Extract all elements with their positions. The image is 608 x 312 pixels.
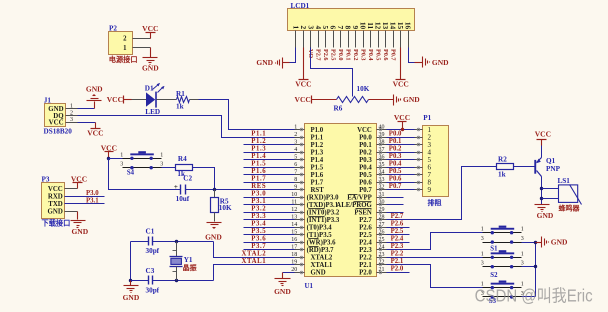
svg-text:P2.3: P2.3 bbox=[391, 243, 404, 250]
svg-text:J1: J1 bbox=[44, 96, 52, 104]
U1 pin 19 (XTAL1) bbox=[291, 260, 333, 270]
wire S2 to ground rail bbox=[522, 266, 536, 268]
svg-text:P1.5: P1.5 bbox=[311, 165, 324, 172]
power port VCC (U1 pin40) bbox=[394, 113, 410, 129]
svg-text:GND: GND bbox=[537, 211, 554, 220]
svg-text:GND: GND bbox=[123, 293, 140, 302]
svg-text:3: 3 bbox=[160, 162, 163, 168]
svg-text:VCC: VCC bbox=[87, 128, 103, 137]
svg-text:P2.2: P2.2 bbox=[391, 251, 404, 258]
U1 pin 29 (PSEN) bbox=[354, 207, 386, 217]
svg-text:P3: P3 bbox=[42, 175, 50, 183]
RP P1 pin 8 bbox=[415, 179, 432, 187]
svg-text:GND: GND bbox=[71, 227, 88, 236]
svg-text:1k: 1k bbox=[498, 171, 506, 179]
resistor R5 10K bbox=[211, 190, 232, 222]
svg-text:P3.5: P3.5 bbox=[251, 228, 266, 235]
svg-text:P2.0: P2.0 bbox=[391, 266, 404, 273]
svg-text:VCC: VCC bbox=[357, 127, 372, 134]
LCD1 pin 13 bbox=[381, 22, 390, 61]
svg-text:(T0)P3.4: (T0)P3.4 bbox=[307, 225, 333, 232]
svg-text:3: 3 bbox=[294, 140, 297, 146]
svg-text:3: 3 bbox=[521, 261, 524, 267]
RP P1 pin 5 bbox=[415, 156, 432, 164]
switch S2 bbox=[481, 250, 524, 279]
svg-text:P2.7: P2.7 bbox=[359, 217, 372, 224]
svg-text:1: 1 bbox=[70, 103, 73, 109]
U1 pin 23 (P2.2) bbox=[359, 252, 386, 262]
LCD1 pin 16 bbox=[404, 22, 413, 48]
svg-text:P1.2: P1.2 bbox=[251, 138, 266, 145]
switch S3 bbox=[481, 281, 524, 305]
svg-text:10uf: 10uf bbox=[176, 195, 190, 203]
svg-text:GND: GND bbox=[47, 209, 62, 216]
stub wire pin 31 bbox=[387, 197, 404, 199]
ground (LCD1 pin1) bbox=[256, 58, 282, 69]
svg-text:P2.1: P2.1 bbox=[391, 258, 404, 265]
svg-text:GND: GND bbox=[86, 84, 103, 93]
svg-text:PSEN: PSEN bbox=[354, 210, 371, 217]
wire XTAL2 bbox=[214, 242, 295, 258]
svg-text:18: 18 bbox=[291, 252, 297, 258]
svg-text:38: 38 bbox=[379, 140, 385, 146]
wire net P0.7 bbox=[387, 189, 415, 191]
U1 pin 18 (XTAL2) bbox=[291, 252, 333, 262]
svg-text:1: 1 bbox=[481, 251, 484, 257]
wire net P3.5 bbox=[244, 234, 295, 236]
svg-text:C1: C1 bbox=[146, 227, 155, 235]
svg-text:P0.2: P0.2 bbox=[359, 150, 372, 157]
svg-text:P1.3: P1.3 bbox=[251, 146, 266, 153]
U1 pin 7 (P1.6) bbox=[294, 170, 324, 180]
LCD1 pin 6 bbox=[329, 26, 338, 61]
U1 pin 8 (P1.7) bbox=[294, 177, 324, 187]
ground (P2) bbox=[142, 48, 159, 73]
svg-text:1: 1 bbox=[120, 152, 123, 158]
svg-text:CSDN @叫我Eric: CSDN @叫我Eric bbox=[475, 285, 593, 305]
svg-text:9: 9 bbox=[294, 185, 297, 191]
svg-text:VCC: VCC bbox=[535, 130, 551, 139]
svg-text:P0.0: P0.0 bbox=[337, 49, 344, 61]
svg-text:33: 33 bbox=[379, 177, 385, 183]
LCD1 pin 2 bbox=[299, 26, 308, 48]
wire VCC rail down to C2 bbox=[109, 159, 181, 190]
svg-text:R6: R6 bbox=[334, 105, 343, 113]
stub wire pin 29 bbox=[387, 212, 404, 214]
svg-text:P0.4: P0.4 bbox=[389, 161, 402, 168]
svg-text:30: 30 bbox=[379, 200, 385, 206]
U1 pin 30 (ALE/PROG) bbox=[336, 200, 386, 210]
svg-text:VCC: VCC bbox=[101, 144, 117, 153]
transistor Q1 PNP bbox=[534, 140, 560, 205]
power port VCC (S4) bbox=[101, 144, 117, 159]
wire net P2.7 to R2 bbox=[387, 167, 497, 220]
wire S1 to ground rail bbox=[522, 242, 536, 244]
svg-text:GND: GND bbox=[403, 95, 420, 104]
wire net P0.0 bbox=[387, 137, 415, 139]
junction LS1 pin2 bbox=[540, 197, 543, 200]
IC U1 (AT89C51 MCU) bbox=[305, 124, 377, 291]
svg-text:25: 25 bbox=[379, 237, 385, 243]
wire R6 to ground bbox=[369, 99, 394, 101]
svg-text:蜂鸣器: 蜂鸣器 bbox=[559, 203, 581, 212]
wire DQ net to P1.1 bbox=[78, 116, 295, 138]
svg-text:DS18B20: DS18B20 bbox=[44, 128, 73, 136]
svg-text:P2.2: P2.2 bbox=[359, 255, 372, 262]
svg-text:P0.4: P0.4 bbox=[367, 49, 374, 61]
capacitor C1 30pf bbox=[146, 227, 160, 255]
wire net P3.3 bbox=[244, 219, 295, 221]
svg-text:VCC: VCC bbox=[393, 80, 409, 89]
svg-text:RXD: RXD bbox=[48, 193, 63, 200]
svg-text:P3.0: P3.0 bbox=[86, 190, 99, 197]
svg-text:P0.1: P0.1 bbox=[389, 138, 402, 145]
svg-text:P1.6: P1.6 bbox=[251, 168, 266, 175]
U1 pin 15 ((T1)P3.5) bbox=[291, 230, 332, 240]
svg-text:R2: R2 bbox=[498, 155, 507, 163]
svg-text:P2.4: P2.4 bbox=[391, 236, 404, 243]
U1 pin 33 (P0.6) bbox=[359, 177, 386, 187]
wire net P2.6 bbox=[387, 227, 410, 229]
svg-text:3: 3 bbox=[481, 236, 484, 242]
svg-text:29: 29 bbox=[379, 207, 385, 213]
svg-text:1: 1 bbox=[521, 251, 524, 257]
svg-text:P0.0: P0.0 bbox=[359, 135, 372, 142]
wire net P3.6 bbox=[244, 242, 295, 244]
svg-text:(RXD)P3.0: (RXD)P3.0 bbox=[307, 195, 340, 202]
svg-text:P0.6: P0.6 bbox=[359, 180, 372, 187]
U1 pin 28 (P2.7) bbox=[359, 215, 386, 225]
pin 2 (J1) bbox=[66, 115, 78, 117]
svg-text:P3.3: P3.3 bbox=[251, 213, 266, 220]
junction VCC pin40 bbox=[401, 128, 404, 131]
svg-text:P2.6: P2.6 bbox=[322, 49, 329, 61]
wire RXD / net label P3.0 bbox=[65, 196, 105, 198]
svg-text:P2.0: P2.0 bbox=[359, 270, 372, 277]
svg-text:P2.5: P2.5 bbox=[359, 232, 372, 239]
LCD1 pin 15 bbox=[396, 22, 405, 48]
pin 3 (J1) bbox=[66, 122, 78, 124]
U1 pin 3 (P1.2) bbox=[294, 140, 324, 150]
svg-text:排阻: 排阻 bbox=[428, 198, 442, 207]
svg-text:PNP: PNP bbox=[546, 165, 561, 173]
svg-text:36: 36 bbox=[379, 155, 385, 161]
wire VCC to R6 bbox=[312, 99, 337, 101]
svg-text:P2.3: P2.3 bbox=[359, 247, 372, 254]
svg-text:5: 5 bbox=[294, 155, 297, 161]
wire net P1.6 bbox=[244, 174, 295, 176]
ground (R6) bbox=[394, 95, 421, 106]
wire TXD / net label P3.1 bbox=[65, 203, 105, 205]
wire net P0.5 bbox=[387, 174, 415, 176]
power port VCC (Q1 emitter) bbox=[535, 130, 551, 140]
U1 pin 38 (P0.1) bbox=[359, 140, 386, 150]
wire net P0.1 bbox=[387, 144, 415, 146]
wire to LED bbox=[132, 99, 147, 101]
wire net P0.4 bbox=[387, 167, 415, 169]
LCD1 pin 5 bbox=[321, 26, 330, 61]
svg-text:34: 34 bbox=[379, 170, 385, 176]
svg-text:S4: S4 bbox=[127, 170, 135, 177]
svg-text:40: 40 bbox=[379, 125, 385, 131]
svg-text:P1.2: P1.2 bbox=[311, 142, 324, 149]
junction S1/ground bbox=[534, 241, 537, 244]
svg-text:P3.6: P3.6 bbox=[251, 236, 266, 243]
LCD1 pin 3 bbox=[306, 26, 315, 59]
svg-text:P0.1: P0.1 bbox=[359, 142, 372, 149]
U1 pin 27 (P2.6) bbox=[359, 222, 386, 232]
svg-text:GND: GND bbox=[256, 58, 273, 67]
svg-text:P1.1: P1.1 bbox=[251, 131, 266, 138]
svg-text:P1.4: P1.4 bbox=[251, 153, 266, 160]
wire crystal bottom rail bbox=[131, 280, 149, 282]
svg-text:2: 2 bbox=[70, 110, 73, 116]
svg-text:8: 8 bbox=[294, 177, 297, 183]
svg-text:P1.1: P1.1 bbox=[311, 135, 324, 142]
svg-text:EA/VPP: EA/VPP bbox=[347, 195, 372, 202]
svg-text:LCD1: LCD1 bbox=[291, 2, 310, 10]
U1 pin 1 (P1.0) bbox=[294, 125, 324, 135]
svg-text:P0.5: P0.5 bbox=[359, 172, 372, 179]
svg-text:XTAL2: XTAL2 bbox=[311, 255, 333, 262]
svg-text:21: 21 bbox=[379, 267, 385, 273]
U1 pin 26 (P2.5) bbox=[359, 230, 386, 240]
svg-text:XTAL1: XTAL1 bbox=[242, 258, 267, 265]
U1 pin 22 (P2.1) bbox=[359, 260, 386, 270]
wire net P2.1 to S3 bbox=[387, 265, 483, 288]
U1 pin 13 ((INT1)P3.3) bbox=[291, 215, 340, 225]
svg-text:C2: C2 bbox=[183, 175, 192, 183]
svg-text:10K: 10K bbox=[357, 85, 370, 93]
svg-text:P1.6: P1.6 bbox=[311, 172, 324, 179]
wire U1 pin40 to RP P1 pin1 bbox=[387, 129, 415, 131]
ground rail (keys) bbox=[535, 243, 537, 297]
wire net P2.3 to S1 bbox=[387, 233, 483, 250]
power port VCC (LED) bbox=[107, 95, 132, 104]
resistor R2 1k bbox=[497, 155, 514, 178]
power port VCC (J1 pin3) bbox=[78, 123, 104, 138]
junction crystal bottom-left bbox=[129, 279, 132, 282]
ground (Q1 collector) bbox=[535, 205, 554, 220]
junction S2/ground bbox=[534, 265, 537, 268]
svg-text:27: 27 bbox=[379, 222, 385, 228]
wire C1 to XTAL2 bbox=[153, 241, 214, 243]
svg-text:VCC: VCC bbox=[295, 95, 311, 104]
svg-text:P0.4: P0.4 bbox=[359, 165, 372, 172]
svg-text:23: 23 bbox=[379, 252, 385, 258]
U1 pin 6 (P1.5) bbox=[294, 162, 324, 172]
U1 pin 14 ((T0)P3.4) bbox=[291, 222, 332, 232]
ground (P3) bbox=[65, 212, 89, 236]
svg-text:3: 3 bbox=[120, 162, 123, 168]
LCD1 pin 9 bbox=[351, 26, 360, 61]
RP P1 pin 7 bbox=[415, 171, 432, 179]
RP P1 pin 1 bbox=[415, 126, 432, 134]
svg-text:(INT1)P3.3: (INT1)P3.3 bbox=[307, 217, 340, 224]
svg-text:3: 3 bbox=[521, 236, 524, 242]
svg-text:晶振: 晶振 bbox=[183, 263, 197, 272]
svg-text:GND: GND bbox=[274, 287, 291, 296]
svg-text:P0.7: P0.7 bbox=[389, 49, 396, 61]
wire net P1.3 bbox=[244, 152, 295, 154]
wire VO net (LCD1 pin3 to R6) bbox=[311, 48, 353, 97]
wire R2 to Q1 base bbox=[514, 166, 535, 168]
LCD1 pin 8 bbox=[344, 26, 353, 61]
connector P3 (download port) bbox=[42, 175, 71, 227]
svg-text:P0.2: P0.2 bbox=[352, 49, 359, 61]
ground (LCD1 pin16) bbox=[423, 57, 450, 68]
wire LCD1 pin1 to ground bbox=[290, 48, 296, 63]
svg-text:19: 19 bbox=[291, 260, 297, 266]
wire XTAL1 bbox=[214, 265, 295, 281]
U1 pin 34 (P0.5) bbox=[359, 170, 386, 180]
RP P1 pin 9 bbox=[415, 186, 432, 194]
U1 pin 2 (P1.1) bbox=[294, 132, 324, 142]
svg-text:(INT0)P3.2: (INT0)P3.2 bbox=[307, 210, 340, 217]
U1 pin 4 (P1.3) bbox=[294, 147, 324, 157]
resistor R6 10K bbox=[334, 85, 370, 113]
svg-text:C3: C3 bbox=[146, 267, 155, 275]
svg-text:31: 31 bbox=[379, 192, 385, 198]
svg-text:37: 37 bbox=[379, 147, 385, 153]
junction crystal bottom bbox=[175, 279, 178, 282]
switch S1 bbox=[481, 226, 524, 253]
svg-text:RST: RST bbox=[311, 187, 325, 194]
svg-text:39: 39 bbox=[379, 132, 385, 138]
RP P1 pin 3 bbox=[415, 141, 432, 149]
svg-text:6: 6 bbox=[294, 162, 297, 168]
power port VCC (LCD1 pin2) bbox=[295, 48, 311, 89]
svg-text:26: 26 bbox=[379, 230, 385, 236]
svg-text:P2.7: P2.7 bbox=[391, 213, 404, 220]
svg-text:XTAL1: XTAL1 bbox=[311, 262, 333, 269]
buzzer LS1 bbox=[542, 177, 582, 212]
svg-text:P0.0: P0.0 bbox=[389, 131, 402, 138]
wire net P2.2 to S2 bbox=[387, 257, 483, 259]
wire net P0.3 bbox=[387, 159, 415, 161]
svg-text:1: 1 bbox=[123, 45, 127, 52]
wire net P3.7 bbox=[244, 249, 295, 251]
wire S3 to ground rail bbox=[522, 296, 536, 298]
svg-text:10K: 10K bbox=[219, 204, 232, 212]
svg-text:P2.6: P2.6 bbox=[391, 221, 404, 228]
svg-text:P0.2: P0.2 bbox=[389, 146, 402, 153]
ground (J1 pin1) bbox=[78, 84, 104, 108]
pin 2 wire (P2) bbox=[133, 38, 151, 40]
svg-text:P0.5: P0.5 bbox=[374, 49, 381, 61]
svg-text:GND: GND bbox=[205, 233, 222, 242]
svg-text:GND: GND bbox=[142, 64, 159, 73]
svg-text:1: 1 bbox=[294, 125, 297, 131]
wire LED to R1 bbox=[157, 99, 177, 101]
connector P2 (power input) bbox=[109, 25, 133, 55]
svg-text:30pf: 30pf bbox=[146, 287, 160, 295]
wire net P3.0 bbox=[244, 197, 295, 199]
U1 pin 21 (P2.0) bbox=[359, 267, 386, 277]
svg-text:R4: R4 bbox=[178, 155, 187, 163]
svg-text:P0.7: P0.7 bbox=[359, 187, 372, 194]
svg-text:30pf: 30pf bbox=[146, 247, 160, 255]
capacitor C3 30pf bbox=[146, 267, 160, 295]
U1 pin 12 ((INT0)P3.2) bbox=[291, 207, 340, 217]
RP P1 pin 2 bbox=[415, 134, 432, 142]
svg-text:VCC: VCC bbox=[71, 174, 87, 183]
wire net P1.4 bbox=[244, 159, 295, 161]
svg-text:P0.3: P0.3 bbox=[359, 157, 372, 164]
svg-text:VCC: VCC bbox=[394, 113, 410, 122]
U1 pin 39 (P0.0) bbox=[359, 132, 386, 142]
svg-text:9: 9 bbox=[428, 186, 432, 194]
junction RES node bbox=[213, 188, 216, 191]
svg-text:GND: GND bbox=[311, 270, 326, 277]
svg-text:P0.3: P0.3 bbox=[389, 153, 402, 160]
U1 pin 25 (P2.4) bbox=[359, 237, 386, 247]
U1 pin 32 (P0.7) bbox=[359, 185, 386, 195]
U1 pin 36 (P0.3) bbox=[359, 155, 386, 165]
ground (R5) bbox=[205, 223, 222, 242]
LCD1 pin 4 bbox=[314, 26, 323, 61]
svg-text:P2.5: P2.5 bbox=[391, 228, 404, 235]
svg-text:P2.4: P2.4 bbox=[359, 240, 372, 247]
svg-text:XTAL2: XTAL2 bbox=[242, 251, 267, 258]
svg-text:P3.1: P3.1 bbox=[86, 198, 99, 205]
wire R1 to U1 P1.0 bbox=[190, 99, 199, 101]
svg-text:3: 3 bbox=[481, 261, 484, 267]
svg-text:4: 4 bbox=[294, 147, 297, 153]
LCD1 pin 7 bbox=[336, 26, 345, 61]
svg-text:VCC: VCC bbox=[142, 24, 158, 33]
LCD1 pin 14 bbox=[389, 22, 398, 61]
U1 pin 37 (P0.2) bbox=[359, 147, 386, 157]
svg-text:VCC: VCC bbox=[107, 95, 123, 104]
svg-text:P1.7: P1.7 bbox=[311, 180, 324, 187]
wire S4 to R4 bbox=[162, 167, 176, 169]
svg-text:RES: RES bbox=[251, 183, 266, 190]
svg-text:2: 2 bbox=[123, 35, 127, 42]
svg-text:GND: GND bbox=[551, 238, 568, 247]
svg-text:35: 35 bbox=[379, 162, 385, 168]
svg-text:P1.5: P1.5 bbox=[251, 161, 266, 168]
connector LCD1 bbox=[288, 2, 415, 31]
U1 pin 31 (EA/VPP) bbox=[347, 192, 386, 202]
U1 pin 40 (VCC) bbox=[357, 125, 386, 135]
junction crystal top bbox=[175, 240, 178, 243]
crystal Y1 bbox=[170, 242, 197, 281]
svg-text:1: 1 bbox=[481, 227, 484, 233]
LCD1 pin 11 bbox=[366, 22, 375, 60]
U1 pin 16 ((WR)P3.6) bbox=[291, 237, 336, 247]
svg-text:P3.4: P3.4 bbox=[251, 221, 266, 228]
svg-text:P1.3: P1.3 bbox=[311, 150, 324, 157]
svg-text:P1.7: P1.7 bbox=[251, 176, 266, 183]
svg-text:P0.5: P0.5 bbox=[389, 168, 402, 175]
LCD1 pin 1 bbox=[291, 26, 300, 48]
U1 pin 9 (RST) bbox=[294, 185, 324, 195]
svg-text:P0.6: P0.6 bbox=[389, 176, 402, 183]
svg-text:22: 22 bbox=[379, 260, 385, 266]
resistor R1 1k bbox=[176, 90, 190, 110]
wire C3 to XTAL1 bbox=[153, 280, 214, 282]
svg-text:TXD: TXD bbox=[48, 201, 63, 208]
resistor network P1 (排阻) bbox=[423, 114, 449, 207]
svg-text:VCC: VCC bbox=[48, 186, 63, 193]
wire net P2.5 bbox=[387, 234, 410, 236]
pin 1 (J1) bbox=[66, 108, 78, 110]
svg-text:28: 28 bbox=[379, 215, 385, 221]
svg-text:VCC: VCC bbox=[295, 80, 311, 89]
wire VCC to S4 bbox=[109, 158, 123, 160]
svg-text:U1: U1 bbox=[305, 282, 314, 290]
